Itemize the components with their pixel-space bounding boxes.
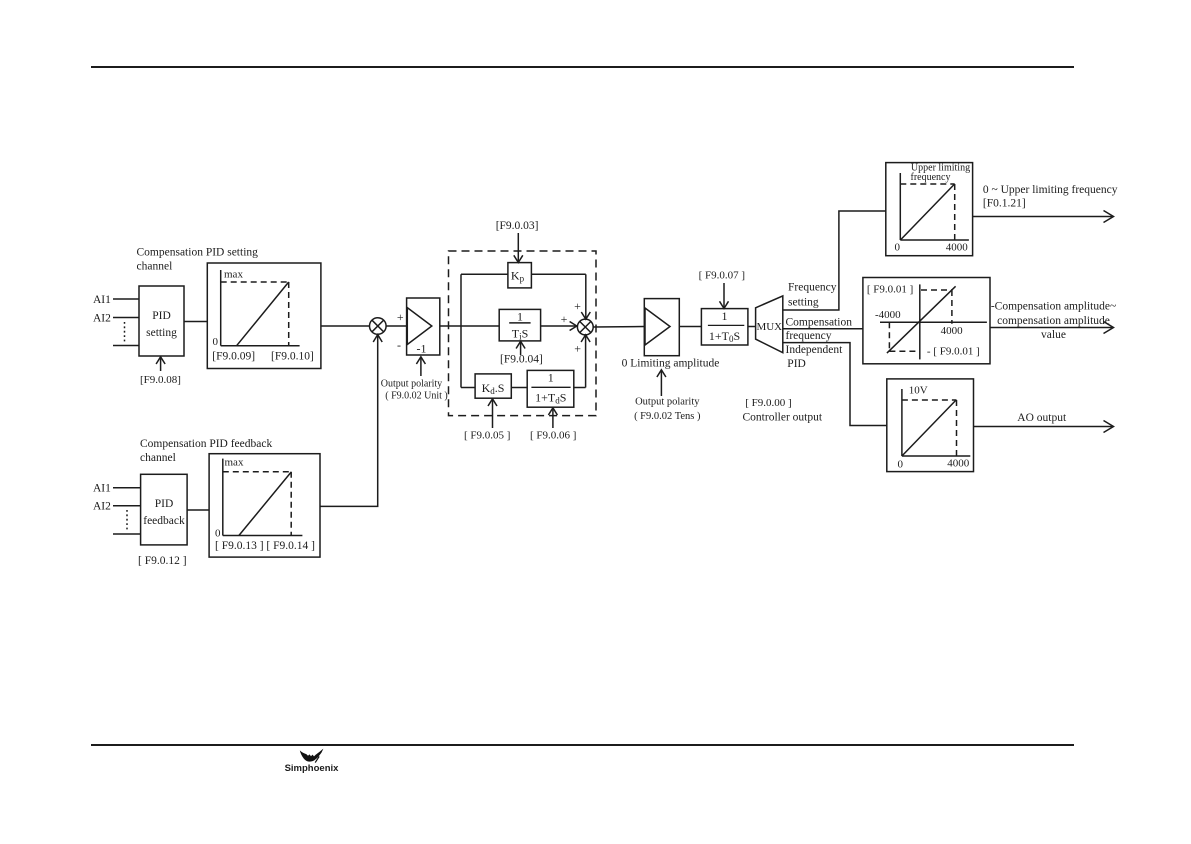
svg-text:feedback: feedback [143,515,185,527]
svg-text:Output polarity: Output polarity [381,379,442,390]
svg-text:[ F9.0.12 ]: [ F9.0.12 ] [138,555,187,567]
svg-text:Compensation PID setting: Compensation PID setting [137,247,259,259]
svg-text:Controller output: Controller output [743,412,823,424]
svg-text:Simphoenix: Simphoenix [285,763,340,774]
svg-text:[ F9.0.00 ]: [ F9.0.00 ] [745,397,791,409]
svg-text:setting: setting [146,327,177,339]
svg-text:value: value [1041,329,1066,341]
svg-text:0: 0 [898,459,904,471]
svg-text:[F9.0.04]: [F9.0.04] [500,354,543,366]
svg-text:[F9.0.03]: [F9.0.03] [496,220,539,232]
svg-text:+: + [574,299,581,313]
svg-text:[ F9.0.01 ]: [ F9.0.01 ] [867,284,913,296]
svg-text:0: 0 [213,336,219,348]
svg-text:1+T0S: 1+T0S [709,329,740,344]
svg-text:AO output: AO output [1017,412,1067,424]
svg-text:PID: PID [152,310,171,322]
svg-text:+: + [561,312,568,326]
svg-text:-Compensation amplitude~: -Compensation amplitude~ [991,301,1116,313]
svg-text:Kp: Kp [511,269,525,284]
svg-text:1: 1 [722,309,728,323]
svg-text:-4000: -4000 [875,309,901,321]
svg-text:AI2: AI2 [93,501,111,513]
svg-text:[F9.0.10]: [F9.0.10] [271,351,314,363]
svg-text:0: 0 [895,242,901,254]
svg-text:TiS: TiS [512,327,529,342]
svg-text:0: 0 [215,528,221,540]
svg-text:frequency: frequency [786,330,832,342]
svg-text:AI1: AI1 [93,294,111,306]
svg-text:[ F9.0.07 ]: [ F9.0.07 ] [699,270,745,282]
svg-text:channel: channel [140,452,176,464]
svg-text:4000: 4000 [947,458,970,470]
svg-text:1: 1 [548,371,554,385]
svg-text:setting: setting [788,297,819,309]
svg-text:AI1: AI1 [93,483,111,495]
svg-text:( F9.0.02 Unit ): ( F9.0.02 Unit ) [385,391,448,402]
svg-text:AI2: AI2 [93,313,111,325]
svg-text:Frequency: Frequency [788,282,837,294]
svg-text:1: 1 [517,310,523,324]
svg-text:4000: 4000 [941,325,964,337]
svg-text:MUX: MUX [756,321,782,333]
svg-text:[ F9.0.06 ]: [ F9.0.06 ] [530,430,576,442]
svg-text:[F9.0.09]: [F9.0.09] [212,351,255,363]
svg-text:PID: PID [155,498,174,510]
svg-text:max: max [225,457,244,469]
svg-text:PID: PID [787,358,806,370]
svg-text:0 Limiting amplitude: 0 Limiting amplitude [622,358,720,370]
svg-text:-1: -1 [417,342,427,356]
svg-text:compensation amplitude: compensation amplitude [997,315,1110,327]
svg-text:[F0.1.21]: [F0.1.21] [983,198,1026,210]
svg-text:Output polarity: Output polarity [635,397,700,408]
svg-text:( F9.0.02 Tens ): ( F9.0.02 Tens ) [634,411,701,422]
svg-text:[F9.0.08]: [F9.0.08] [140,374,181,386]
svg-text:Compensation PID feedback: Compensation PID feedback [140,438,272,450]
svg-text:+: + [397,310,404,324]
svg-text:[ F9.0.05 ]: [ F9.0.05 ] [464,430,510,442]
svg-text:10V: 10V [909,385,928,397]
svg-text:max: max [224,269,243,281]
svg-text:frequency: frequency [911,172,951,183]
svg-text:Kd.S: Kd.S [482,381,505,396]
svg-text:4000: 4000 [946,242,969,254]
svg-text:- [ F9.0.01 ]: - [ F9.0.01 ] [927,346,980,358]
svg-text:[ F9.0.13 ] [ F9.0.14 ]: [ F9.0.13 ] [ F9.0.14 ] [215,540,315,552]
svg-text:+: + [574,342,581,356]
svg-text:channel: channel [137,261,173,273]
svg-text:Independent: Independent [786,344,844,356]
svg-text:1+TdS: 1+TdS [535,391,566,406]
svg-text:0 ~ Upper limiting frequency: 0 ~ Upper limiting frequency [983,184,1118,196]
svg-text:-: - [397,338,401,352]
svg-text:Compensation: Compensation [786,317,853,329]
